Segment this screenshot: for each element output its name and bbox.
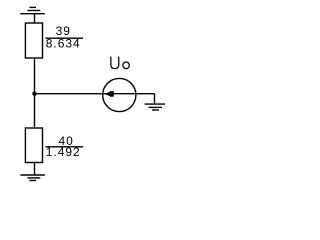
wire R40 bottom to ground bbox=[34, 163, 36, 176]
wire voltmeter to corner bbox=[136, 93, 155, 95]
voltmeter U1 circle bbox=[103, 78, 136, 111]
resistor R39 bbox=[25, 23, 42, 58]
ground GND3 (bottom) bbox=[20, 175, 45, 181]
svg-text:8.634: 8.634 bbox=[46, 36, 81, 50]
svg-text:1.492: 1.492 bbox=[46, 145, 81, 159]
wire node to voltmeter (horizontal) bbox=[35, 93, 136, 95]
arrow of voltmeter (points left) bbox=[105, 91, 114, 97]
wire R39 bottom to node bbox=[34, 58, 36, 94]
ground GND2 (right) bbox=[145, 104, 166, 110]
fraction bar of label R40 bbox=[46, 146, 84, 148]
label Uo bbox=[111, 57, 129, 69]
wire top ground to R39 bbox=[34, 14, 36, 23]
wire node to R40 bbox=[34, 94, 36, 128]
resistor R40 bbox=[25, 128, 42, 163]
node junction dot bbox=[32, 92, 36, 96]
fraction bar of label R39 bbox=[46, 37, 84, 39]
ground GND1 (top, inverted) bbox=[20, 7, 45, 13]
